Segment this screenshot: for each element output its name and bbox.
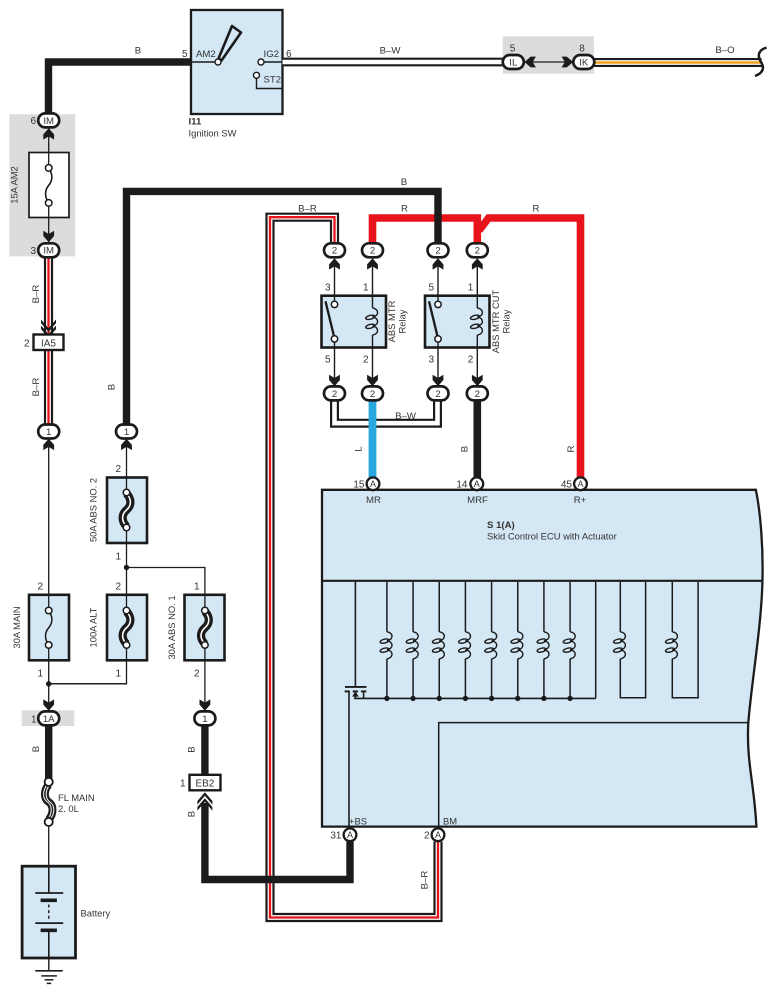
svg-text:15: 15 xyxy=(353,480,365,491)
svg-text:MRF: MRF xyxy=(467,495,488,506)
svg-text:AM2: AM2 xyxy=(196,49,216,60)
svg-text:B: B xyxy=(135,46,141,57)
svg-text:IM: IM xyxy=(43,116,54,127)
svg-text:Relay: Relay xyxy=(397,309,408,333)
svg-text:B: B xyxy=(187,811,198,817)
svg-text:2: 2 xyxy=(363,355,369,366)
svg-text:1: 1 xyxy=(31,714,37,725)
svg-text:30A ABS NO. 1: 30A ABS NO. 1 xyxy=(166,595,177,659)
svg-text:B–O: B–O xyxy=(715,45,734,56)
svg-text:B: B xyxy=(460,446,471,452)
svg-text:5: 5 xyxy=(182,49,188,60)
svg-text:2. 0L: 2. 0L xyxy=(58,803,79,814)
svg-text:R+: R+ xyxy=(574,495,587,506)
svg-text:1: 1 xyxy=(194,582,200,593)
svg-text:45: 45 xyxy=(561,480,573,491)
svg-text:3: 3 xyxy=(428,355,434,366)
svg-text:A: A xyxy=(474,479,480,489)
svg-text:B–R: B–R xyxy=(420,871,431,890)
svg-text:B: B xyxy=(187,746,198,752)
svg-text:2: 2 xyxy=(475,246,480,257)
svg-text:IK: IK xyxy=(579,57,589,68)
svg-text:Skid Control ECU with Actuator: Skid Control ECU with Actuator xyxy=(487,531,617,542)
svg-text:IM: IM xyxy=(43,246,54,257)
svg-text:S 1(A): S 1(A) xyxy=(487,520,515,531)
svg-text:30A MAIN: 30A MAIN xyxy=(11,606,22,648)
svg-text:6: 6 xyxy=(286,49,292,60)
svg-text:R: R xyxy=(533,204,540,215)
svg-text:+BS: +BS xyxy=(349,816,367,827)
svg-text:A: A xyxy=(347,830,353,840)
svg-text:MR: MR xyxy=(366,495,381,506)
svg-text:6: 6 xyxy=(30,116,36,127)
svg-text:1: 1 xyxy=(363,283,369,294)
svg-text:2: 2 xyxy=(332,389,337,400)
svg-text:1: 1 xyxy=(468,283,474,294)
svg-text:Ignition SW: Ignition SW xyxy=(189,127,237,138)
svg-text:15A AM2: 15A AM2 xyxy=(9,166,20,204)
svg-text:3: 3 xyxy=(325,283,331,294)
svg-text:2: 2 xyxy=(37,582,43,593)
svg-text:1: 1 xyxy=(37,669,43,680)
svg-text:ABS MTR: ABS MTR xyxy=(386,300,397,342)
svg-text:1A: 1A xyxy=(43,714,55,725)
svg-text:2: 2 xyxy=(194,669,200,680)
svg-text:IA5: IA5 xyxy=(41,339,56,350)
svg-text:B: B xyxy=(107,384,118,390)
svg-text:2: 2 xyxy=(424,831,430,842)
svg-text:IL: IL xyxy=(509,57,518,68)
svg-text:8: 8 xyxy=(579,44,585,55)
svg-text:IG2: IG2 xyxy=(264,49,279,60)
svg-text:14: 14 xyxy=(456,480,468,491)
svg-text:A: A xyxy=(577,479,583,489)
svg-text:Battery: Battery xyxy=(81,908,111,919)
svg-text:L: L xyxy=(354,446,365,452)
svg-text:ABS MTR CUT: ABS MTR CUT xyxy=(490,289,501,353)
svg-text:B–W: B–W xyxy=(380,46,402,57)
svg-text:1: 1 xyxy=(46,427,51,438)
svg-text:2: 2 xyxy=(468,355,474,366)
svg-text:5: 5 xyxy=(428,283,434,294)
svg-text:2: 2 xyxy=(475,389,480,400)
svg-text:1: 1 xyxy=(124,427,129,438)
svg-text:50A ABS NO. 2: 50A ABS NO. 2 xyxy=(88,478,99,542)
svg-text:ST2: ST2 xyxy=(264,75,282,86)
svg-text:5: 5 xyxy=(510,44,516,55)
svg-text:A: A xyxy=(370,479,376,489)
svg-text:B: B xyxy=(401,177,407,188)
svg-text:1: 1 xyxy=(115,669,121,680)
svg-text:BM: BM xyxy=(443,816,457,827)
svg-text:A: A xyxy=(435,830,441,840)
svg-text:2: 2 xyxy=(370,389,375,400)
svg-text:I11: I11 xyxy=(189,117,202,128)
svg-text:3: 3 xyxy=(30,246,36,257)
svg-text:B: B xyxy=(31,746,42,752)
svg-text:2: 2 xyxy=(332,246,337,257)
svg-text:2: 2 xyxy=(24,338,30,349)
svg-text:EB2: EB2 xyxy=(195,779,214,790)
svg-text:2: 2 xyxy=(115,582,121,593)
svg-text:B–W: B–W xyxy=(395,411,417,422)
svg-text:B–R: B–R xyxy=(31,285,42,304)
svg-text:1: 1 xyxy=(115,552,121,563)
svg-text:B–R: B–R xyxy=(298,204,317,215)
svg-text:Relay: Relay xyxy=(501,309,512,333)
svg-text:B–R: B–R xyxy=(31,378,42,397)
svg-text:R: R xyxy=(566,445,577,452)
svg-text:2: 2 xyxy=(370,246,375,257)
svg-text:2: 2 xyxy=(115,464,121,475)
svg-text:1: 1 xyxy=(202,714,207,725)
svg-text:R: R xyxy=(401,204,408,215)
svg-text:1: 1 xyxy=(180,778,186,789)
svg-text:2: 2 xyxy=(435,389,440,400)
svg-text:FL MAIN: FL MAIN xyxy=(58,792,95,803)
svg-text:2: 2 xyxy=(435,246,440,257)
svg-text:31: 31 xyxy=(330,831,342,842)
svg-text:5: 5 xyxy=(325,355,331,366)
svg-text:100A ALT: 100A ALT xyxy=(88,607,99,647)
